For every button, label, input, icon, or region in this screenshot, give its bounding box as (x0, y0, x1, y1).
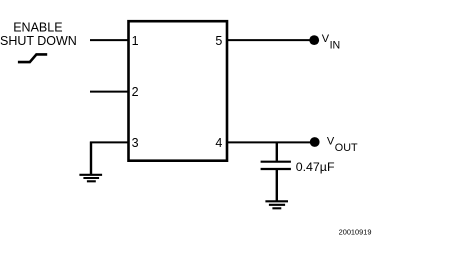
svg-text:V: V (322, 33, 330, 45)
wire pin 3 (90, 141, 128, 143)
svg-text:IN: IN (330, 40, 341, 52)
ground (capacitor) (265, 201, 288, 208)
capacitor C1 (261, 162, 291, 169)
label VOUT (327, 135, 358, 154)
svg-text:1: 1 (132, 34, 139, 48)
node VOUT terminal dot (310, 137, 320, 147)
svg-text:2: 2 (132, 85, 139, 99)
svg-text:V: V (327, 135, 335, 147)
svg-text:0.47µF: 0.47µF (296, 160, 335, 174)
ground (pin 3) (79, 175, 102, 182)
wire pin 2 stub (90, 91, 128, 93)
svg-text:4: 4 (215, 136, 222, 150)
svg-text:OUT: OUT (335, 142, 358, 154)
IC U1 (5-pin regulator body) (129, 21, 228, 161)
node VIN terminal dot (309, 35, 319, 45)
wire ground stem left (90, 142, 92, 175)
wire pin 5 to VIN node (228, 39, 315, 41)
wire capacitor branch lower (276, 170, 278, 201)
svg-text:SHUT DOWN: SHUT DOWN (0, 34, 77, 48)
svg-text:ENABLE: ENABLE (13, 20, 62, 34)
svg-text:5: 5 (215, 34, 222, 48)
svg-text:3: 3 (132, 136, 139, 150)
label VIN (322, 33, 340, 52)
enable ramp waveform symbol (18, 54, 47, 62)
wire capacitor branch upper (276, 142, 278, 161)
wire pin 4 to VOUT node (228, 141, 315, 143)
svg-text:20010919: 20010919 (339, 228, 372, 237)
wire pin 1 (90, 39, 128, 41)
